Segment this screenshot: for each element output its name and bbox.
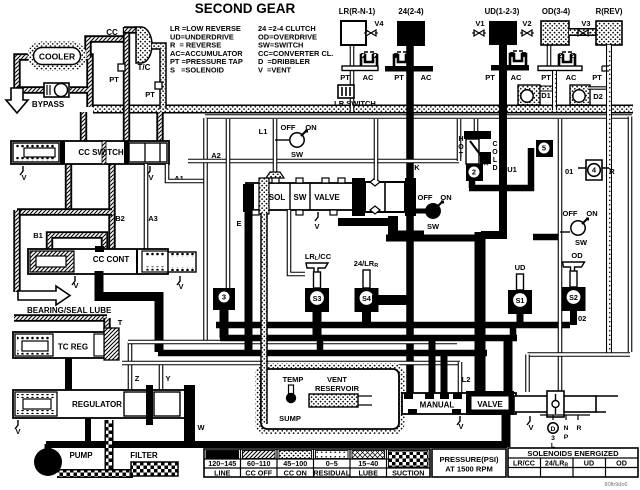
svg-text:SW: SW [294, 193, 307, 202]
thermal valve HOT/COLD [474, 119, 479, 131]
svg-text:SW: SW [575, 238, 588, 247]
wire S2 down [570, 311, 577, 325]
valve REGULATOR [13, 390, 185, 418]
wire CC CONT black out [99, 271, 159, 352]
svg-text:PT: PT [541, 73, 551, 82]
svg-text:SUMP: SUMP [279, 414, 301, 423]
svg-text:TEMP: TEMP [283, 375, 304, 384]
svg-text:LR(R-N-1): LR(R-N-1) [339, 7, 376, 16]
junction 5 [536, 140, 553, 157]
svg-text:V: V [528, 423, 533, 432]
junction 2 [466, 164, 483, 181]
svg-text:S2: S2 [569, 293, 578, 302]
svg-text:V: V [148, 173, 153, 182]
cooler [30, 44, 84, 68]
wire suction checker [105, 420, 114, 474]
pump [34, 448, 62, 476]
accumulator 2-4 assembly [352, 178, 365, 216]
wire manifold line1 [216, 322, 570, 329]
svg-text:PT: PT [592, 73, 602, 82]
wire 24 line upper [406, 44, 414, 394]
svg-text:OD: OD [616, 459, 627, 468]
svg-text:BEARING/SEAL LUBE: BEARING/SEAL LUBE [27, 306, 112, 315]
wire D2 stub [588, 86, 606, 89]
svg-text:S3: S3 [313, 294, 322, 303]
plate PT/AC OD [538, 66, 582, 71]
svg-text:15–40: 15–40 [358, 459, 378, 468]
svg-text:RESERVOIR: RESERVOIR [315, 384, 360, 393]
wire S4 to 24 line [372, 295, 409, 305]
plate PT/AC 24 [385, 66, 433, 72]
wire OD residual outlet [552, 71, 557, 110]
svg-text:5: 5 [542, 144, 546, 153]
right dotted spool of CC CONT [168, 252, 196, 272]
svg-text:T/C: T/C [138, 63, 151, 72]
wire main stipple band [93, 105, 633, 114]
svg-text:V: V [21, 173, 26, 182]
dribbler D2 [570, 85, 590, 105]
wire T/C out stipple [152, 46, 163, 109]
wire right horizontal channel [528, 352, 631, 357]
svg-text:CC CONT: CC CONT [93, 255, 130, 264]
svg-text:COOLER: COOLER [39, 52, 75, 62]
valve SOL SW VALVE [266, 172, 284, 178]
wire channel to junction 3 [226, 119, 231, 288]
wire pump pressure line [46, 441, 507, 448]
svg-text:80fb9do6: 80fb9do6 [605, 482, 628, 488]
wire L1 channel [273, 119, 278, 174]
LR SWITCH [338, 85, 354, 98]
svg-text:AC: AC [566, 73, 577, 82]
svg-text:C: C [492, 141, 497, 148]
wire control channel upper [128, 340, 457, 345]
svg-text:PRESSURE(PSI): PRESSURE(PSI) [439, 455, 499, 464]
svg-text:AC: AC [511, 73, 522, 82]
svg-text:UD: UD [584, 459, 594, 468]
wire valve drop black [502, 412, 511, 447]
svg-text:OFF: OFF [418, 193, 433, 202]
junction 3 [213, 288, 235, 310]
svg-text:R: R [577, 425, 582, 432]
arrow bearing seal lube [18, 286, 70, 305]
svg-text:AT 1500 RPM: AT 1500 RPM [445, 465, 493, 474]
svg-text:V: V [458, 422, 463, 431]
svg-text:TC REG: TC REG [58, 343, 88, 352]
wire thermal to 5 [469, 148, 531, 188]
valve VALVE label section [466, 391, 514, 415]
converter T/C dome [136, 27, 152, 63]
wire L2-line to valve black [504, 340, 513, 394]
svg-text:O: O [492, 149, 498, 156]
svg-text:OFF: OFF [281, 123, 296, 132]
svg-text:REGULATOR: REGULATOR [72, 400, 122, 409]
wire 5 to line [533, 234, 560, 241]
wire big center vertical [475, 232, 486, 394]
svg-text:OD: OD [571, 251, 583, 260]
svg-text:Z: Z [135, 374, 140, 383]
svg-text:LR SWITCH: LR SWITCH [334, 99, 376, 108]
wire S1 down [517, 314, 524, 325]
wire manifold line3 [158, 350, 487, 357]
port W black bar [184, 385, 195, 445]
wire junction3 down [220, 308, 229, 338]
svg-text:D: D [492, 165, 497, 172]
wire B1 hatch loop [50, 235, 105, 250]
svg-text:60–110: 60–110 [247, 459, 271, 468]
svg-text:V4: V4 [374, 19, 384, 28]
wire assembly channel drop [374, 119, 379, 180]
wire S3 down [313, 312, 322, 338]
svg-text:R(REV): R(REV) [596, 7, 623, 16]
svg-text:V3: V3 [581, 19, 590, 28]
wire manifold line2 [220, 335, 517, 342]
svg-text:120–145: 120–145 [208, 459, 236, 468]
bypass valve [44, 83, 69, 97]
svg-text:ON: ON [586, 209, 597, 218]
svg-text:L2: L2 [462, 375, 471, 384]
svg-text:N: N [564, 425, 569, 432]
wire SW channel to LR/CC [289, 210, 305, 274]
wire sol stipple down [260, 213, 268, 424]
svg-text:BYPASS: BYPASS [32, 100, 65, 109]
svg-text:S4: S4 [362, 294, 371, 303]
wire S4 down [362, 312, 371, 325]
svg-text:24/LRR: 24/LRR [354, 259, 378, 269]
svg-text:T: T [118, 318, 123, 327]
wire A2 horizontal channel [188, 159, 459, 164]
svg-text:H: H [458, 136, 463, 143]
svg-text:MANUAL: MANUAL [420, 401, 455, 410]
svg-text:W: W [197, 423, 205, 432]
svg-text:U1: U1 [507, 165, 517, 174]
wire assembly to 24 line [394, 231, 424, 238]
valve CC SWITCH [11, 141, 169, 164]
svg-text:V: V [314, 222, 319, 231]
arrow to lube [6, 88, 28, 113]
svg-text:SOL: SOL [269, 193, 286, 202]
plate PT/AC LR [342, 66, 378, 71]
svg-text:PT: PT [109, 75, 119, 84]
svg-text:A3: A3 [148, 214, 158, 223]
svg-text:LR/CC: LR/CC [513, 459, 535, 468]
sump enclosure [258, 366, 402, 432]
plate PT/AC UD [491, 65, 529, 71]
svg-text:SECOND GEAR: SECOND GEAR [195, 1, 296, 16]
svg-text:FILTER: FILTER [130, 451, 158, 460]
svg-text:E: E [236, 219, 241, 228]
filter [131, 462, 178, 476]
wire E line black [245, 186, 253, 353]
lever box [547, 391, 564, 417]
svg-text:3: 3 [222, 293, 226, 302]
svg-text:Y: Y [165, 374, 170, 383]
svg-text:SW: SW [291, 150, 304, 159]
shift positions [540, 415, 590, 420]
svg-text:V: V [15, 427, 20, 436]
svg-text:45–100: 45–100 [283, 459, 307, 468]
svg-text:K: K [414, 163, 420, 172]
svg-text:D: D [551, 426, 556, 433]
svg-text:↔: ↔ [482, 159, 490, 168]
dribbler D1 [518, 85, 540, 105]
valve TC REG [13, 332, 117, 358]
wire control channel to valve [122, 361, 460, 366]
svg-text:VALVE: VALVE [477, 400, 503, 409]
svg-text:B1: B1 [33, 231, 43, 240]
svg-text:D2: D2 [593, 92, 603, 101]
svg-text:RESIDUAL: RESIDUAL [313, 469, 350, 478]
wire manual feeds [429, 338, 436, 394]
svg-text:O: O [458, 144, 464, 151]
svg-text:02: 02 [578, 314, 586, 323]
svg-text:D1: D1 [541, 91, 551, 100]
wire Z channel [128, 342, 133, 390]
wire A3 channel [144, 164, 149, 250]
wire cooler loop [17, 57, 90, 107]
wire Y channel [159, 363, 164, 390]
svg-text:LINE: LINE [214, 469, 231, 478]
svg-text:B2: B2 [115, 214, 125, 223]
wire drop channel [457, 119, 462, 161]
svg-text:CC ON: CC ON [284, 469, 307, 478]
svg-text:S =SOLENOID: S =SOLENOID [170, 66, 225, 75]
svg-text:PT: PT [485, 73, 495, 82]
wire TC REG to regulator black [65, 358, 72, 392]
wire right frame channel [628, 117, 633, 353]
svg-text:OFF: OFF [563, 209, 578, 218]
pressure tap PT on CC line [118, 64, 125, 71]
svg-text:3: 3 [551, 435, 555, 442]
svg-text:0–5: 0–5 [326, 459, 338, 468]
svg-text:LRL/CC: LRL/CC [305, 252, 332, 262]
svg-text:SUCTION: SUCTION [392, 469, 424, 478]
svg-text:VALVE: VALVE [314, 193, 340, 202]
wire A2 channel [203, 118, 208, 341]
svg-text:PT: PT [394, 73, 404, 82]
pressure tap PT on TC out [155, 82, 162, 89]
valve MANUAL [402, 393, 516, 414]
wire B2 hatch down [65, 162, 72, 212]
svg-text:V2: V2 [522, 19, 531, 28]
svg-text:V1: V1 [475, 19, 484, 28]
bracket junction 4 [586, 160, 602, 180]
svg-text:L1: L1 [259, 127, 268, 136]
svg-text:VENT: VENT [327, 375, 347, 384]
svg-text:R: R [609, 167, 615, 176]
svg-text:PT: PT [145, 90, 155, 99]
wire CC SWITCH top hatches [80, 112, 87, 142]
svg-text:UD(1-2-3): UD(1-2-3) [485, 7, 520, 16]
solenoids energized table [508, 448, 638, 477]
svg-text:UD: UD [515, 263, 526, 272]
svg-text:S1: S1 [516, 296, 525, 305]
wire UD line [481, 44, 503, 235]
svg-text:SW: SW [427, 222, 440, 231]
wire R residual line [606, 45, 612, 354]
svg-text:OD(3-4): OD(3-4) [542, 7, 571, 16]
valve right body [514, 396, 596, 412]
svg-text:CC OFF: CC OFF [245, 469, 272, 478]
pressure psi box [432, 449, 506, 477]
svg-text:CC: CC [106, 28, 118, 37]
svg-text:T: T [459, 152, 464, 159]
svg-text:V: V [178, 282, 183, 291]
wire lube hatch line [14, 314, 107, 321]
wire A1 channel [167, 164, 204, 181]
svg-text:L: L [493, 157, 498, 164]
svg-text:24(2-4): 24(2-4) [398, 7, 424, 16]
svg-text:V =VENT: V =VENT [258, 66, 292, 75]
svg-text:2: 2 [472, 168, 476, 177]
svg-text:PT: PT [340, 73, 350, 82]
svg-text:AC: AC [421, 73, 432, 82]
svg-text:CC SWITCH: CC SWITCH [78, 148, 124, 157]
wire L2 channel [458, 362, 463, 393]
legend pressure table [204, 449, 430, 477]
wire 01 channel [558, 119, 563, 392]
valve CC CONT [28, 249, 168, 274]
svg-text:PUMP: PUMP [69, 451, 93, 460]
wire CC hatched main [123, 27, 130, 142]
wire main control channel [205, 114, 632, 119]
svg-text:SOLENOIDS ENERGIZED: SOLENOIDS ENERGIZED [527, 449, 619, 458]
svg-text:A2: A2 [211, 151, 221, 160]
wire left hatch horizontal [17, 208, 112, 215]
svg-text:V: V [73, 281, 78, 290]
svg-text:P: P [564, 434, 569, 441]
svg-text:AC: AC [363, 73, 374, 82]
svg-text:01: 01 [565, 167, 573, 176]
svg-text:LUBE: LUBE [358, 469, 378, 478]
